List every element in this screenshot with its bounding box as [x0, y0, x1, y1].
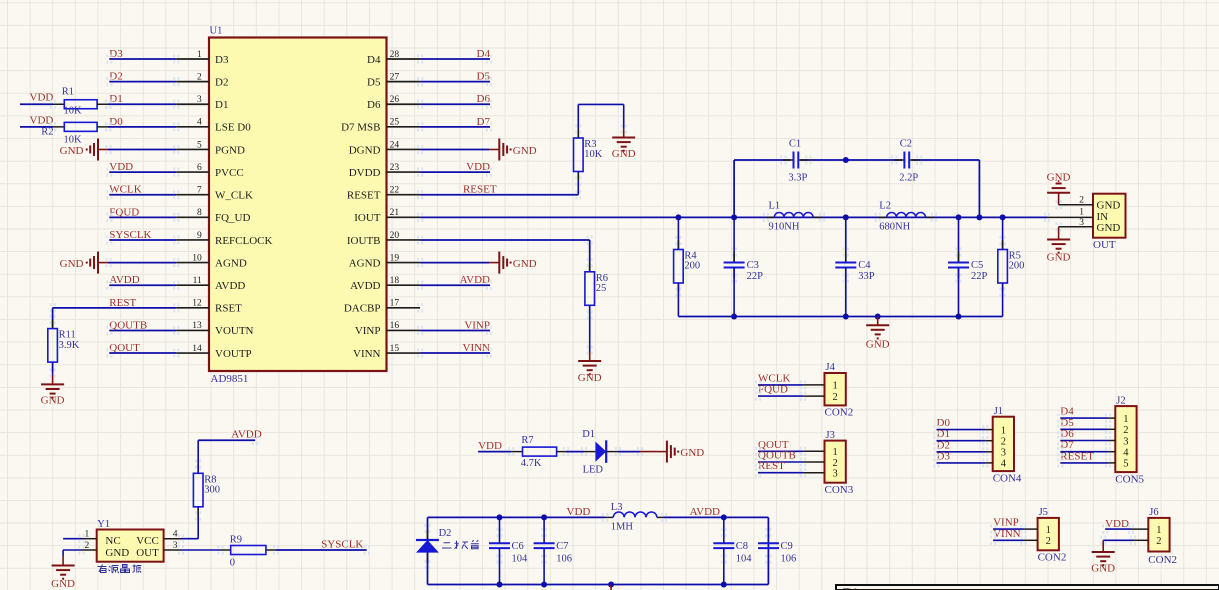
svg-text:OUT: OUT: [1093, 239, 1116, 251]
svg-text:C5: C5: [971, 260, 983, 271]
resistor R6 25: [585, 262, 608, 352]
capacitor C2 2.2P: [894, 159, 905, 161]
J6 pin 2 wire to ground: [1103, 536, 1161, 552]
svg-text:24: 24: [390, 140, 400, 150]
resistor R9 0: [221, 549, 231, 551]
ground above OUT connector: [1047, 172, 1071, 205]
connector J4 CON2 body: [825, 362, 854, 418]
svg-text:104: 104: [736, 554, 753, 565]
svg-text:CON5: CON5: [1115, 473, 1144, 485]
svg-text:AVDD: AVDD: [215, 280, 245, 292]
svg-text:680NH: 680NH: [879, 222, 910, 233]
svg-text:200: 200: [684, 261, 700, 272]
svg-text:RESET: RESET: [347, 190, 381, 202]
svg-text:CON2: CON2: [1148, 554, 1177, 566]
svg-text:FQUD: FQUD: [109, 206, 139, 218]
svg-text:28: 28: [390, 50, 400, 60]
svg-text:910NH: 910NH: [769, 222, 800, 233]
svg-text:GND: GND: [612, 148, 636, 160]
J1 pin 1 wire net D0: [937, 417, 1006, 436]
svg-text:GND: GND: [60, 258, 84, 270]
svg-text:AGND: AGND: [349, 257, 381, 269]
svg-text:D4: D4: [367, 54, 381, 66]
svg-text:3: 3: [833, 469, 838, 480]
ground below J6: [1091, 552, 1115, 575]
svg-text:0: 0: [230, 557, 235, 568]
svg-text:1: 1: [1046, 525, 1051, 536]
svg-text:VDD: VDD: [466, 161, 490, 173]
svg-text:2: 2: [84, 541, 89, 551]
svg-text:IN: IN: [1097, 211, 1109, 223]
capacitor C4 33P: [835, 217, 875, 316]
svg-text:AGND: AGND: [215, 257, 247, 269]
svg-text:OUT: OUT: [136, 547, 159, 559]
svg-text:GND: GND: [1091, 563, 1115, 575]
J2 pin 4 wire net D7: [1060, 439, 1129, 458]
J2 pin 2 wire net D5: [1060, 417, 1128, 436]
inductor L3 1MH: [605, 502, 664, 533]
svg-text:LED: LED: [583, 464, 604, 475]
svg-text:2: 2: [1123, 425, 1128, 436]
diode D1 LED: [582, 429, 618, 475]
svg-text:RESET: RESET: [463, 184, 497, 196]
svg-text:1: 1: [197, 50, 202, 60]
Y1 pin 4 wire to R8: [164, 507, 199, 540]
svg-text:1: 1: [1123, 414, 1128, 425]
svg-text:GND: GND: [60, 145, 84, 157]
connector J1 CON4 body: [993, 406, 1022, 484]
svg-text:1: 1: [1156, 525, 1161, 536]
svg-text:10K: 10K: [584, 149, 603, 160]
svg-text:8: 8: [197, 208, 202, 218]
svg-text:C3: C3: [747, 260, 759, 271]
svg-text:9: 9: [197, 231, 202, 241]
svg-text:VINN: VINN: [463, 342, 491, 354]
U1 left pin stubs and numbers 1-14: [176, 50, 209, 354]
svg-text:RSET: RSET: [215, 303, 242, 315]
wire U1 pin 10 to ground: [108, 262, 176, 264]
wire VDD to U1 pin 6: [109, 171, 176, 173]
svg-text:200: 200: [1009, 261, 1025, 272]
svg-text:R1: R1: [62, 87, 74, 98]
svg-text:14: 14: [192, 344, 202, 354]
svg-text:2: 2: [833, 458, 838, 469]
svg-text:J2: J2: [1116, 395, 1125, 406]
svg-text:D2: D2: [109, 71, 122, 83]
wire VDD from U1 pin 23: [420, 171, 490, 173]
J2 pin 5 wire net RESET: [1060, 450, 1128, 469]
OUT pin 2 wire: [1059, 204, 1093, 206]
svg-text:12: 12: [192, 299, 202, 309]
svg-text:REST: REST: [109, 297, 136, 309]
svg-text:J4: J4: [826, 362, 836, 373]
svg-text:23: 23: [390, 163, 400, 173]
svg-text:CON3: CON3: [825, 484, 854, 496]
svg-text:3: 3: [1123, 436, 1128, 447]
ground below OUT connector: [1047, 227, 1071, 263]
svg-text:C8: C8: [736, 541, 748, 552]
resistor R1 10K: [53, 87, 108, 117]
ground at R3 top rail: [612, 129, 636, 160]
svg-text:GND: GND: [51, 578, 75, 590]
J3 pin 3 wire net REST: [758, 460, 838, 479]
junction dots on power rails: [497, 514, 727, 587]
svg-text:AVDD: AVDD: [460, 274, 490, 286]
OUT pin 3 wire: [1059, 226, 1093, 228]
svg-text:SYSCLK: SYSCLK: [109, 229, 151, 241]
J3 pin 2 wire net QOUTB: [758, 450, 838, 469]
svg-text:25: 25: [390, 118, 400, 128]
resistor R5 200: [998, 217, 1025, 316]
svg-text:J3: J3: [826, 430, 835, 441]
resistor R8 300: [193, 440, 220, 516]
wire RESET from U1 pin 22 to R3: [420, 194, 578, 196]
IC U1 AD9851 body: [209, 26, 387, 386]
svg-text:AVDD: AVDD: [350, 280, 380, 292]
svg-text:GND: GND: [1097, 222, 1121, 234]
svg-text:D6: D6: [367, 99, 381, 111]
svg-text:QOUTB: QOUTB: [109, 319, 147, 331]
svg-text:FQUD: FQUD: [758, 384, 788, 396]
svg-text:4: 4: [1123, 448, 1129, 459]
ground symbol at U1 pin 19: [489, 262, 499, 264]
label 有源晶振 (active crystal) under Y1: [98, 565, 142, 574]
svg-text:VINN: VINN: [353, 348, 381, 360]
svg-text:1: 1: [84, 530, 89, 540]
svg-text:4.7K: 4.7K: [521, 458, 542, 469]
svg-text:VDD: VDD: [30, 114, 54, 126]
svg-text:L1: L1: [769, 200, 781, 211]
svg-text:18: 18: [390, 276, 400, 286]
svg-text:PGND: PGND: [215, 144, 245, 156]
svg-text:D5: D5: [367, 76, 381, 88]
svg-text:VOUTN: VOUTN: [215, 325, 254, 337]
svg-text:10: 10: [192, 253, 202, 263]
svg-text:VDD: VDD: [478, 440, 502, 452]
svg-text:106: 106: [556, 554, 572, 565]
svg-text:REFCLOCK: REFCLOCK: [215, 235, 273, 247]
J1 pin 4 wire net D3: [937, 450, 1007, 469]
svg-text:26: 26: [390, 95, 400, 105]
svg-text:U1: U1: [210, 26, 223, 37]
svg-text:1: 1: [1079, 207, 1084, 217]
svg-text:106: 106: [781, 554, 797, 565]
svg-text:17: 17: [390, 299, 400, 309]
J4 pin 2 wire net FQUD: [758, 384, 838, 403]
inductor L1 910NH: [766, 200, 822, 232]
capacitor C1 3.3P: [783, 159, 794, 161]
filter top rail wire: [734, 160, 979, 217]
svg-text:SYSCLK: SYSCLK: [321, 539, 363, 551]
capacitor C6 104: [489, 517, 528, 584]
wire D2 to U1 pin 2: [109, 81, 176, 83]
OUT pin 1 wire IN: [1047, 216, 1093, 218]
svg-text:D5: D5: [477, 71, 491, 83]
capacitor C8 104: [713, 517, 752, 584]
svg-text:2: 2: [197, 72, 202, 82]
svg-text:GND: GND: [1097, 200, 1121, 212]
wire AVDD to U1 pin 11: [109, 284, 176, 286]
svg-text:W_CLK: W_CLK: [215, 190, 253, 202]
svg-text:QOUT: QOUT: [109, 342, 140, 354]
svg-text:4: 4: [173, 530, 178, 540]
svg-text:5: 5: [1123, 459, 1128, 470]
capacitor C3 22P: [724, 217, 764, 316]
svg-text:J6: J6: [1149, 507, 1158, 518]
wire VDD to R7: [478, 451, 511, 453]
svg-text:IOUT: IOUT: [354, 212, 381, 224]
junction dots on filter: [675, 157, 1005, 320]
ground below Y1: [51, 556, 75, 590]
wire U1 pin 24 DGND to ground: [420, 148, 489, 150]
svg-text:AVDD: AVDD: [109, 274, 139, 286]
svg-text:21: 21: [390, 208, 400, 218]
svg-text:L2: L2: [879, 200, 891, 211]
wire IOUT from U1 pin 21 to output filter: [420, 216, 1047, 218]
ground symbol right of D1: [640, 441, 704, 463]
svg-text:4: 4: [1001, 459, 1007, 470]
connection point marks: [50, 54, 1137, 569]
svg-text:2: 2: [833, 392, 838, 403]
svg-text:300: 300: [204, 485, 220, 496]
svg-text:VINP: VINP: [993, 517, 1019, 529]
wire D1 net to U1 pin 3: [108, 103, 176, 105]
svg-text:3: 3: [1079, 218, 1084, 228]
J1 pin 2 wire net D1: [937, 428, 1006, 447]
ground at filter bottom rail: [866, 317, 890, 351]
svg-text:1: 1: [1001, 425, 1006, 436]
U1 left pin names: [215, 54, 273, 360]
svg-text:10K: 10K: [64, 134, 83, 145]
svg-text:13: 13: [192, 321, 202, 331]
svg-text:VOUTP: VOUTP: [215, 348, 252, 360]
Y1 pin 2 wire to ground: [63, 541, 97, 556]
resistor R7 4.7K: [511, 435, 566, 469]
wire WCLK to U1 pin 7: [109, 194, 176, 196]
svg-text:AVDD: AVDD: [690, 506, 720, 518]
svg-text:J5: J5: [1039, 507, 1048, 518]
svg-text:AD9851: AD9851: [211, 373, 249, 385]
svg-text:J1: J1: [994, 406, 1003, 417]
wire U1 pin 19 AGND to ground: [420, 262, 489, 264]
svg-text:RESET: RESET: [1060, 450, 1094, 462]
wire R8 to AVDD: [198, 439, 255, 441]
svg-text:1: 1: [833, 381, 838, 392]
wire D7 from U1 pin 25: [420, 126, 490, 128]
svg-text:1MH: 1MH: [611, 522, 634, 533]
wire D5 from U1 pin 27: [420, 81, 490, 83]
wire R9 to SYSCLK: [276, 549, 367, 551]
svg-text:C9: C9: [781, 541, 793, 552]
svg-text:C2: C2: [900, 139, 912, 150]
svg-text:DVDD: DVDD: [349, 167, 381, 179]
J2 pin 1 wire net D4: [1060, 406, 1128, 425]
svg-text:104: 104: [512, 554, 529, 565]
svg-text:CON2: CON2: [825, 407, 854, 419]
svg-text:27: 27: [390, 72, 400, 82]
svg-text:3: 3: [173, 541, 178, 551]
svg-text:CON4: CON4: [993, 472, 1022, 484]
connector J6 CON2 body: [1148, 507, 1177, 566]
svg-text:3.3P: 3.3P: [788, 173, 807, 184]
svg-text:25: 25: [596, 283, 607, 294]
crystal oscillator Y1 body: [97, 519, 164, 562]
wire U1 pin 20 IOUTB down to R6: [420, 240, 590, 272]
wire FQUD to U1 pin 8: [109, 216, 176, 218]
svg-text:VCC: VCC: [136, 535, 159, 547]
svg-text:GND: GND: [1047, 251, 1071, 263]
svg-text:3.9K: 3.9K: [59, 340, 80, 351]
ground symbol at U1 pin 10 AGND: [98, 262, 108, 264]
svg-text:D7 MSB: D7 MSB: [341, 122, 380, 134]
svg-text:GND: GND: [41, 395, 65, 407]
svg-text:AVDD: AVDD: [231, 429, 261, 441]
resistor R11 3.9K: [48, 319, 80, 375]
svg-text:4: 4: [197, 118, 202, 128]
svg-text:NC: NC: [105, 535, 120, 547]
ground symbol at U1 pin 5 PGND: [98, 148, 108, 150]
wire D1 to ground: [618, 451, 640, 453]
svg-text:1: 1: [833, 447, 838, 458]
svg-text:REST: REST: [758, 460, 785, 472]
svg-text:VDD: VDD: [1105, 518, 1129, 530]
capacitor C7 106: [534, 517, 572, 584]
svg-text:GND: GND: [680, 447, 704, 459]
J5 pin 2 wire net VINN: [993, 528, 1051, 547]
svg-text:VINN: VINN: [993, 528, 1021, 540]
J1 pin 3 wire net D2: [937, 439, 1006, 458]
wire VINP from U1 pin 16: [420, 329, 490, 331]
svg-text:D6: D6: [477, 93, 491, 105]
svg-text:Y1: Y1: [97, 519, 110, 530]
wire AVDD from U1 pin 18: [420, 284, 490, 286]
J6 pin 1 wire net VDD: [1105, 518, 1161, 536]
svg-text:WCLK: WCLK: [758, 372, 790, 384]
capacitor C5 22P: [948, 217, 988, 316]
U1 right pin stubs and numbers 28-15: [387, 50, 421, 354]
svg-text:22P: 22P: [747, 271, 764, 282]
Y1 pin 1 wire NC: [63, 530, 97, 540]
svg-text:15: 15: [390, 344, 400, 354]
J2 pin 3 wire net D6: [1060, 428, 1128, 447]
svg-text:C6: C6: [512, 541, 524, 552]
ground below R6: [578, 352, 602, 384]
wire REST net to U1 pin 12 with corner to R11: [53, 308, 177, 329]
svg-text:D7: D7: [477, 116, 491, 128]
svg-text:6: 6: [197, 163, 202, 173]
svg-text:FQ_UD: FQ_UD: [215, 212, 251, 224]
svg-text:R9: R9: [230, 535, 242, 546]
ground stub below power filter rail: [610, 585, 612, 590]
resistor R3 10K with top rail to ground: [574, 104, 624, 194]
svg-text:C1: C1: [789, 139, 801, 150]
svg-text:VDD: VDD: [109, 161, 133, 173]
svg-text:GND: GND: [1047, 172, 1071, 184]
svg-text:GND: GND: [866, 339, 890, 351]
svg-text:GND: GND: [105, 547, 129, 559]
svg-text:L3: L3: [611, 502, 623, 513]
svg-text:D2: D2: [439, 528, 452, 539]
svg-text:PVCC: PVCC: [215, 167, 244, 179]
connector OUT (CON3) body: [1093, 194, 1126, 251]
diode D2 (zener): [416, 528, 451, 564]
svg-text:D0: D0: [109, 116, 123, 128]
power filter top rail wire: [428, 517, 769, 584]
svg-text:LSE D0: LSE D0: [215, 122, 251, 134]
wire VDD to R1: [20, 103, 53, 105]
wire QOUT to U1 pin 14: [109, 352, 176, 354]
connector J5 CON2 body: [1038, 507, 1067, 563]
ground below R11: [41, 375, 65, 407]
svg-text:C7: C7: [556, 541, 568, 552]
connector J2 CON5 body: [1115, 395, 1144, 485]
svg-text:16: 16: [390, 321, 400, 331]
svg-text:3: 3: [197, 95, 202, 105]
svg-text:VDD: VDD: [567, 506, 591, 518]
svg-text:2: 2: [1156, 536, 1161, 547]
svg-text:GND: GND: [578, 372, 602, 384]
svg-text:VINP: VINP: [355, 325, 381, 337]
svg-text:7: 7: [197, 186, 202, 196]
J3 pin 1 wire net QOUT: [758, 439, 838, 458]
svg-text:3: 3: [1001, 448, 1006, 459]
title block: [836, 585, 1219, 590]
wire R7 to D1: [566, 451, 584, 453]
svg-text:22P: 22P: [971, 271, 988, 282]
svg-text:R2: R2: [41, 127, 53, 138]
svg-text:D3: D3: [215, 54, 229, 66]
svg-text:GND: GND: [513, 258, 537, 270]
filter bottom rail wire: [678, 316, 1002, 318]
svg-text:5: 5: [197, 140, 202, 150]
svg-text:IOUTB: IOUTB: [347, 235, 381, 247]
wire VINN from U1 pin 15: [420, 352, 490, 354]
svg-text:VDD: VDD: [30, 92, 54, 104]
svg-text:DACBP: DACBP: [344, 303, 381, 315]
resistor R4 200: [674, 217, 701, 316]
svg-text:D2: D2: [215, 76, 228, 88]
wire VDD to R2: [20, 126, 53, 128]
svg-text:33P: 33P: [858, 271, 875, 282]
wire D0 net to U1 pin 4: [108, 126, 176, 128]
svg-text:2: 2: [1046, 536, 1051, 547]
svg-text:D1: D1: [109, 93, 122, 105]
Y1 pin 3 wire to R9: [164, 541, 221, 551]
svg-text:20: 20: [390, 231, 400, 241]
svg-text:22: 22: [390, 186, 400, 196]
wire U1 pin 5 to ground: [108, 148, 176, 150]
svg-text:10K: 10K: [64, 106, 83, 117]
svg-text:DGND: DGND: [349, 144, 381, 156]
wire D3 to U1 pin 1: [109, 58, 176, 60]
inductor L2 680NH: [878, 200, 934, 232]
ground symbol at U1 pin 24: [489, 148, 499, 150]
svg-text:11: 11: [193, 276, 202, 286]
svg-text:2: 2: [1079, 195, 1084, 205]
power filter bottom rail wire: [428, 584, 769, 586]
wire QOUTB to U1 pin 13: [109, 329, 176, 331]
wire D4 from U1 pin 28: [420, 58, 490, 60]
svg-text:D1: D1: [582, 429, 595, 440]
svg-text:2: 2: [1001, 437, 1006, 448]
svg-text:WCLK: WCLK: [109, 184, 141, 196]
svg-text:2.2P: 2.2P: [899, 173, 918, 184]
svg-text:19: 19: [390, 253, 400, 263]
capacitor C9 106: [758, 541, 796, 565]
J4 pin 1 wire net WCLK: [758, 372, 838, 391]
svg-text:D1: D1: [215, 99, 228, 111]
wire D6 from U1 pin 26: [420, 103, 490, 105]
